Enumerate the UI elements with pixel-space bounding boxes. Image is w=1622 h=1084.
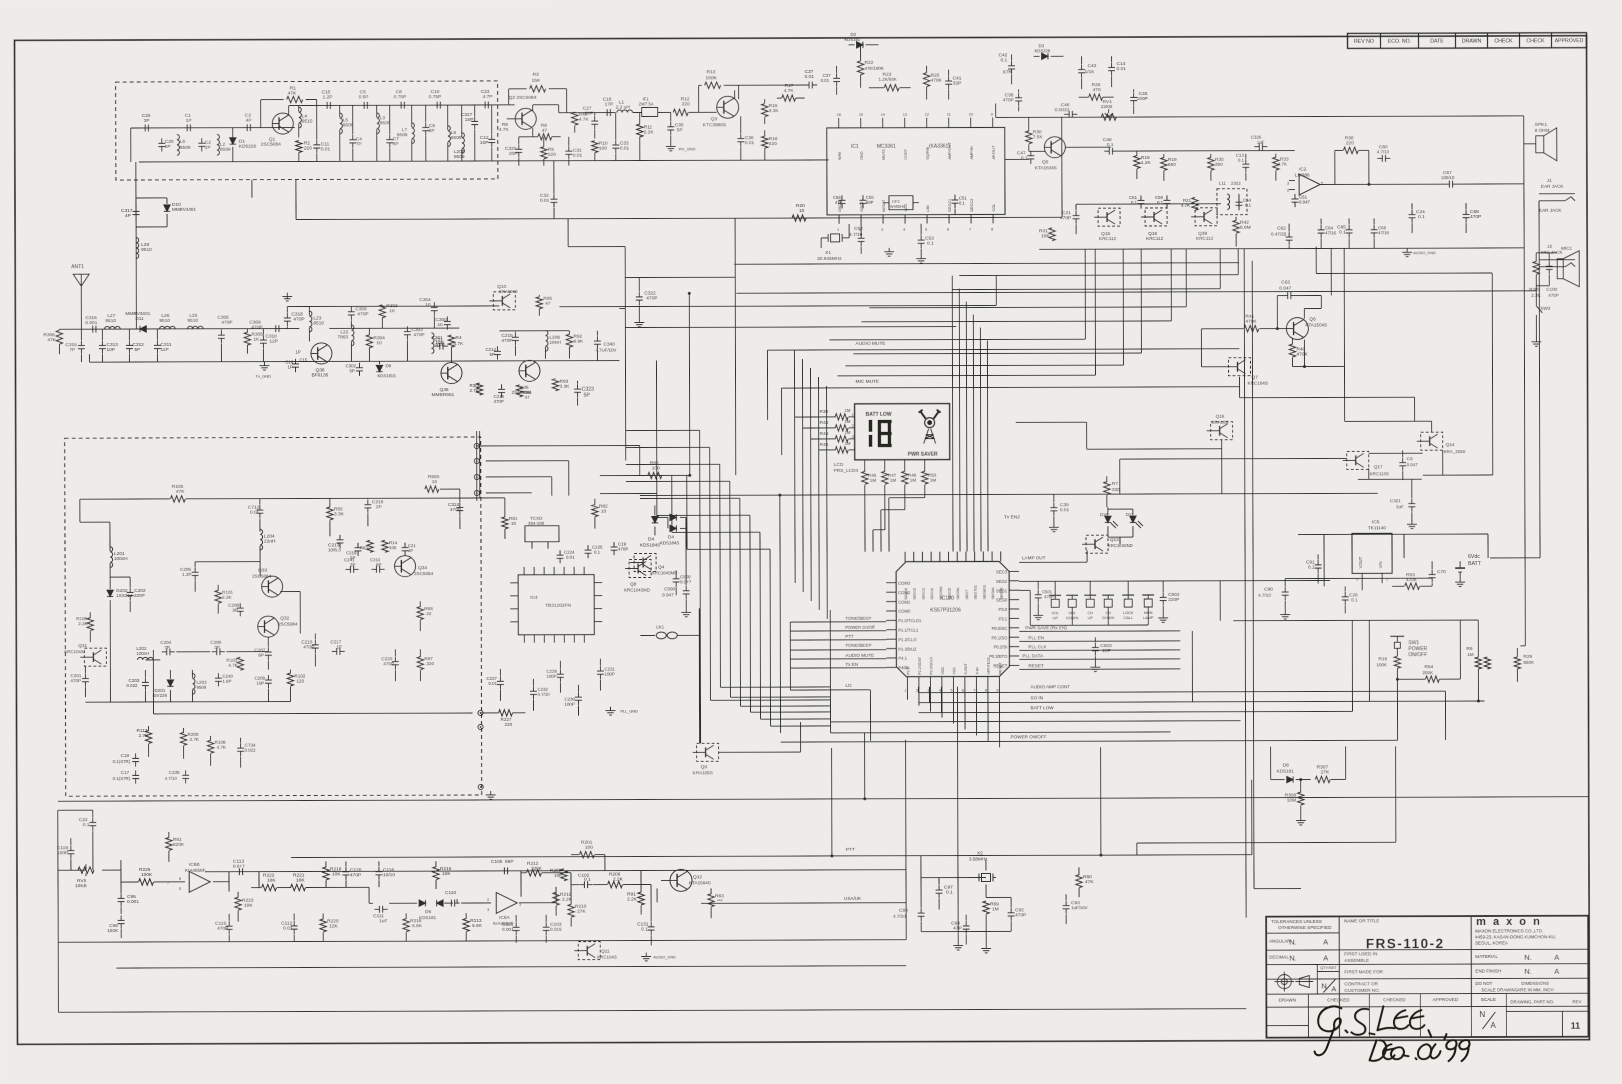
transistor Q3 KTC3880S [717,96,739,118]
IC IC1 MC3361 [827,127,1005,215]
capacitor C110 [446,902,451,904]
resistor R18b 100K [1394,656,1400,668]
capacitor C54 0.1 [1238,197,1240,202]
wire vert x1245 [1244,249,1246,918]
capacitor C7 [389,135,391,140]
capacitor C8 [396,104,401,106]
IC100 bottom pins [906,677,908,687]
dashed transistor Q14 KRA_226S [1421,432,1443,450]
capacitor C202 220P [129,587,131,592]
resistor R22 47K/180K [857,61,863,75]
wire box2 vco rails [110,576,130,578]
wire mid box [829,610,831,733]
wire box2 top rails [240,497,480,500]
transistor Q38 BF0135 [311,343,332,364]
dashed box TX PLL [65,437,482,796]
capacitor C204 7P [162,651,167,653]
inductor L2 [217,134,220,155]
ground C501 gnd [1037,611,1039,615]
wire vert x905 [905,740,908,940]
resistor R45 1M [835,447,848,453]
wire y940 extension [711,939,906,942]
LCD digits 18 [869,420,892,447]
wire vert x736 [734,218,736,277]
ground C322 gnd [638,319,640,323]
resistor R308 10M [1298,792,1304,805]
capacitor C21 470P [1075,211,1077,216]
wire vert x1460c [1251,854,1253,856]
wire bottom rail [139,161,639,162]
wire hor y495 [640,493,1378,495]
wire long y856 PTT [291,855,1252,858]
resistor R17 [782,95,796,101]
resistor R43 1M [835,425,848,431]
resistor R63b [367,540,373,552]
capacitor C225 0.1 [587,545,589,550]
dashed transistor Q16 KRC112 [1145,208,1167,226]
capacitor C218 2P [367,500,369,505]
capacitor C4 [352,135,354,140]
diode D1 [230,138,236,144]
LED D17 [1130,516,1136,522]
inductor L27 [105,326,121,329]
connector pin 6 [478,724,483,729]
ground AUDIO_GND2 [645,952,647,956]
capacitor C312 [128,340,130,345]
capacitor C45 100P [1133,92,1135,97]
resistor R113 2.7K [145,730,151,743]
op-amp IC6B KIA4558F [189,871,210,892]
capacitor C60 4.7/10 [1377,157,1382,159]
wire vert x1540 [1539,201,1540,558]
capacitor C22 0.1 [92,818,94,823]
resistor R82 10 [592,505,598,517]
connector pin 4 [474,490,479,495]
inductor L23 [309,311,312,332]
capacitor C119 100P [70,846,72,851]
capacitor C1 [182,127,187,129]
transistor Q1 2SC5084 [272,113,293,134]
wire button rail2 [1019,589,1030,591]
wire hor y293 [736,291,1536,293]
capacitor C216 [501,384,503,389]
capacitor C116 10/10 [378,867,380,872]
resistor R33 4.7K [1273,157,1279,170]
capacitor C103 0.015 [545,922,547,927]
capacitor C209 10P [267,675,269,680]
capacitor C53 [920,235,922,240]
diode D202 1SS314 [107,590,113,596]
connector pin 5 [478,710,483,715]
capacitor C36 [740,134,742,139]
wire LCD right nest [951,276,954,552]
inductor L8 [448,126,451,147]
wire bus main1 [688,293,691,475]
LCD antenna icon [919,410,941,444]
capacitor C227 0.01 [499,676,501,681]
transistor Q36 MMBR951 [441,363,462,384]
IC IC100 KS57P31306 [896,561,1009,676]
capacitor D9 KDS181S [376,365,382,371]
resistor R305 [244,332,250,345]
wire mid rail [131,127,295,129]
capacitor C327 [474,116,476,121]
wire q35 rail [499,330,569,332]
wire bottom long rail1 [58,809,93,811]
inductor L205 [545,330,548,351]
wire audio top rail [996,116,1524,118]
capacitor C64 47/16 [1320,225,1322,230]
wire audio mid rails [1029,150,1046,152]
wire bottom rail right [639,159,829,162]
wire Q9 net [719,751,801,753]
oscillator TCXO 394-189 [525,526,559,542]
wire bus x760 [759,532,762,719]
resistor R12 [673,109,688,115]
connector pin 1 [474,443,479,448]
resistor R218 10K [323,867,329,880]
trimmer RV1 22KB [1101,114,1116,120]
resistor R105 47K [170,496,185,502]
diode D201 ISV229 [167,680,173,686]
wire Q7 down [1239,377,1241,398]
capacitor C208 3P [239,603,241,608]
inductor L206 [462,133,465,154]
capacitor C241 3P [345,568,350,570]
inductor L28 [136,238,139,259]
wire long y1010 [58,1009,1246,1013]
wire Q7 base [1201,366,1226,368]
resistor R4 [448,335,454,347]
resistor R40 470K [1289,344,1295,357]
capacitor C301 [435,345,440,347]
capacitor C317 [135,206,137,211]
wire rail to Q2 [497,104,515,106]
ground TX_GND [263,362,265,366]
resistor R8b 1M [1475,657,1481,669]
resistor R106 2.2K [87,618,93,631]
ground X2 gnd [985,944,987,948]
resistor R8 [538,134,552,140]
diode D5 KDS181 b [437,900,443,906]
capacitor C203 0.022 [144,677,146,682]
signature G. S.LEE DEC.06 99 [1314,1006,1469,1061]
capacitor C14 0.01 [1111,63,1113,68]
capacitor C67 100/10 [1444,183,1449,185]
resistor R3 [508,89,510,105]
resistor R102 120 [287,673,293,686]
wire audio right loop [1523,116,1525,248]
wire bus y475 [477,445,640,447]
wire vert x864 drop [864,733,866,799]
capacitor C23 [480,104,485,106]
ground C503 gnd [1094,663,1096,667]
resistor R200 2.7K [180,732,186,745]
capacitor C56 [841,195,843,200]
capacitor C94 47P [965,921,967,926]
ground box2 gnd [490,791,492,795]
resistor R103b 4.7K [237,657,243,670]
resistor R49 [572,112,578,125]
wire hor y493 [600,492,657,494]
capacitor C304 [433,303,435,308]
wire vpp gnd [956,687,959,942]
wire IC1 top rail [827,159,829,161]
switch row VOL CH LOCK MON [1051,599,1059,607]
capacitor C37b [836,73,838,78]
resistor R48 1M [902,471,908,484]
filter CF2 W455HG [889,196,913,210]
ground AUDIO_GND label [1406,248,1408,252]
wire bottom long rail2 [120,860,122,870]
resistor R53 470K [1405,583,1420,589]
potentiometer RV5 10KB [78,867,94,873]
wire audio mute net [767,349,1239,350]
capacitor C201 470P [84,674,86,679]
ground C53 gnd [920,255,922,259]
capacitor C340 4.7uF [596,336,598,341]
wire top rail [295,104,497,107]
capacitor C90 4.7/10 [1284,587,1286,592]
capacitor C311 [156,340,158,345]
resistor R206 2.2K [608,881,623,887]
wire x2 rails [921,876,986,878]
capacitor C21b [404,543,406,548]
wire vert x920 [920,856,922,902]
ground C321 gnd [1411,520,1413,524]
resistor R69 1M [983,901,989,914]
wire vert x657 down [655,360,657,475]
inductor L203 9509 [192,673,195,694]
resistor R54 200K [1425,676,1439,682]
capacitor C50 [1166,195,1168,200]
diode D4 KDS184S [652,516,658,522]
wire vert x1368 [1368,620,1370,701]
capacitor C5 [359,104,364,106]
dashed transistor Q31 KRC104S [84,648,106,666]
resistor R222 10K [262,884,277,890]
capacitor C70 [1431,570,1433,575]
capacitor C734 0.022 [240,743,242,748]
capacitor C500b 0.047 [685,586,687,591]
crystal X1 20.945MHz [827,234,829,242]
resistor R225 100K [138,879,153,885]
capacitor C323 5P [577,384,579,389]
capacitor C16 [602,112,607,114]
capacitor C206 3P [212,651,217,653]
wire led loop [1108,536,1133,538]
capacitor C313 [101,341,103,346]
capacitor C27 [594,116,596,121]
capacitor C6 0.047 [1402,458,1404,463]
capacitor C211 8P [371,568,376,570]
wire IC1 right rail [1005,158,1029,160]
capacitor C28 [161,138,163,143]
wire row2 gnd rail [89,361,619,363]
wire bus x720 [719,464,722,687]
wire vert x1332 net [1330,248,1332,295]
resistor R50 1M [922,471,928,484]
IC1 bottom pins [838,215,840,224]
capacitor C324 470P [459,502,461,507]
diode D11 MMBV3401 [140,326,146,332]
capacitor C500 0.0047 [675,574,677,579]
dashed transistor Q4 KRC104SMD [634,553,656,571]
wire IC100 bottom drops [906,687,908,700]
resistor R212 330K [526,870,541,876]
resistor R29 560K [1514,657,1520,669]
capacitor C65 0.1 [1348,225,1350,230]
ground C318 gnd [286,293,288,297]
wire vert x1460 [1298,533,1488,536]
wire left drop [130,128,132,162]
resistor R20 [792,215,806,221]
capacitor C52 4.7/10 [860,233,862,238]
resistor R101 2.2K [215,590,221,603]
wire Q19 net [1221,440,1223,494]
capacitor C38 470P [1018,93,1020,98]
inductor L201 100nH [110,547,113,568]
resistor R11 [637,124,643,137]
wire bus x750 [749,515,752,712]
resistor R39 1M [835,414,848,420]
resistor R47 1M [882,471,888,484]
capacitor C213 [339,535,341,540]
resistor R46 1M [862,471,868,484]
connector pin 7 [478,784,483,789]
antenna ANT1 [73,274,89,286]
inductor L6 [177,134,180,155]
capacitor C220 470P [394,657,396,662]
capacitor C210 470P [314,640,316,645]
capacitor C46 0.0022 [1064,113,1069,115]
capacitor C41 33P [948,76,950,81]
diode D8 KDS181 [1287,776,1293,782]
ground R308 gnd [1300,817,1302,821]
wire row2 rail3 [329,327,459,329]
resistor R215 10K [433,867,439,880]
resistor R6 4.7K [507,118,515,120]
wire IC100 left box [789,622,791,690]
resistor R7 330 [1104,482,1110,495]
wire sw1 net [1233,619,1478,622]
capacitor C61 0.047 [1294,194,1296,199]
wire hor D8 net [1270,747,1272,780]
capacitor C310 [271,328,276,330]
resistor R55 3.3K [327,507,333,520]
dashed transistor Q11 KRC104S [578,942,600,960]
capacitor C51b [1140,195,1142,200]
ground C502 gnd [1162,614,1164,618]
wire vert x1445 [1444,691,1446,740]
resistor R203 2.2K [1533,261,1539,274]
resistor R31 10K [1049,228,1055,241]
wire row2 mid rail [287,305,499,308]
capacitor C66 47/16 [1373,225,1375,230]
resistor R14 100 [382,540,388,552]
IF1 filter 2W7.5A [633,112,642,114]
dashed transistor Q15 KRC112 [1098,208,1120,226]
capacitor C102 0.1 [579,884,584,886]
wire net y733 [831,732,1171,733]
dashed transistor Q10 KRA104S [493,292,515,310]
wire bus x740 [739,498,742,706]
capacitor C42 X7R [1011,61,1013,66]
connector pin 3 [474,474,479,479]
IC100 right pins [1009,570,1019,572]
capacitor C20 0.1 [1344,592,1346,597]
op-amp IC6A KIA4558F [496,892,517,913]
capacitor C18r2 [294,359,296,364]
wire hor y445 [1015,421,1017,423]
capacitor C712 [259,505,261,510]
wire long y799 [58,797,1589,802]
wire hor y482 [1369,452,1423,454]
wire hor y308 [619,308,625,310]
switch SW3 [1535,298,1537,306]
capacitor C120 470P [345,867,347,872]
wire bus x710 [709,447,712,700]
capacitor C9 [425,123,427,128]
capacitor C48 0.1 [1104,150,1109,152]
wire LCD left nest [793,350,796,583]
wire staircase bundle [1084,249,1086,339]
LED D16 [1105,516,1111,522]
capacitor C2 [201,138,203,143]
transistor Q32 2SC5084 [258,616,279,637]
inductor L7 [412,123,415,144]
capacitor C100 470P [1548,261,1550,266]
capacitor C503 20P [1094,643,1096,648]
resistor R63c [708,894,714,907]
wire seg2 rail [1019,579,1330,582]
resistor R223 10K [235,897,241,910]
wire Q3 collector [738,85,740,90]
ground C39 gnd [1053,523,1055,527]
wire vert x831 [831,748,833,856]
resistor R95 [536,297,542,309]
wire net y722 [831,721,1241,722]
capacitor C92 470P [1010,908,1012,913]
resistor R213 5.6K [463,919,469,932]
diode D5 KDS181 a [419,900,425,906]
wire connector drop [476,431,478,501]
transistor Q6 KTA1504S [1286,318,1308,340]
capacitor C230 100P [577,692,579,697]
resistor R23 1.2K/68K [884,85,899,91]
capacitor C205 1.2P [194,567,196,572]
wire ant rail [81,328,299,331]
wire Q1 collector [288,106,290,115]
capacitor C106 68P [499,870,504,872]
resistor R16 [762,136,768,148]
wire Q2 out [532,105,534,111]
wire L28 down [135,254,137,329]
dashed transistor Q13 KRC104SND [1086,535,1108,553]
resistor R26 470 [1089,94,1103,100]
capacitor C39 0.01 [1053,503,1055,508]
capacitor C47 0.1 [1030,151,1032,156]
capacitor C55 [862,195,864,200]
resistor R36 220 [1343,147,1358,153]
capacitor C326 1uF [1254,146,1259,148]
inductor LK1 [640,634,655,636]
ground X1 gnd [888,248,890,252]
inductor L22 [351,325,354,346]
wire vert x1415 [1414,397,1416,421]
resistor R211 2.2K [553,892,559,905]
wire vert x1525b [1524,248,1525,646]
